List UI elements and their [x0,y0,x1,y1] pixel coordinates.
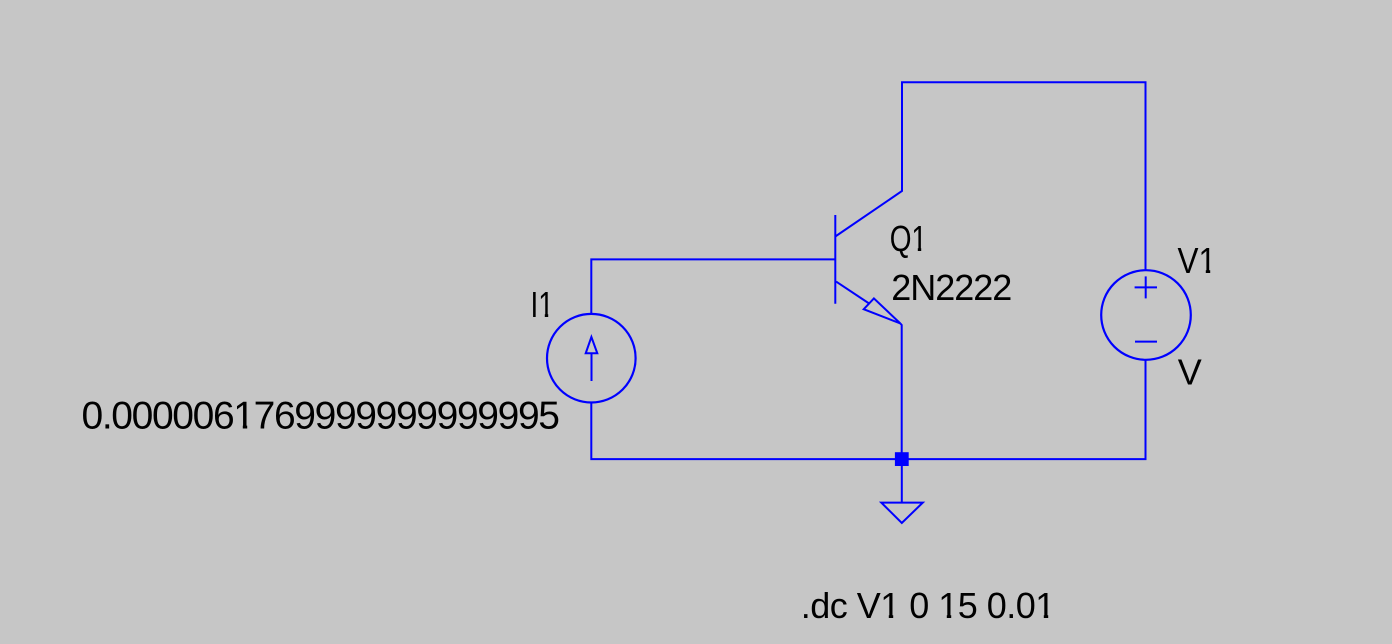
wire node to ground [901,459,903,503]
node junction square [895,452,909,466]
current source I1 arrow shaft [591,353,593,381]
V1 plus sign [1135,286,1157,288]
V1 minus sign [1135,341,1157,343]
voltage source V1 circle [1101,270,1191,360]
ground [881,503,923,523]
transistor Q1 emitter arrow [864,298,901,323]
digit-1 foot patches (match footless 1 of target font) [235,248,1215,619]
current source I1 arrow head [586,337,598,353]
svg-text:0.0000061769999999999995: 0.0000061769999999999995 [82,395,561,438]
svg-text:V1: V1 [1178,240,1217,281]
wire I1 bottom / bottom rail / V1 bottom [591,360,1145,460]
current source I1 circle [547,314,636,403]
wire collector/top rail to V1 [835,82,1145,270]
transistor Q1 base bar [834,215,836,304]
svg-text:2N2222: 2N2222 [891,267,1012,308]
transistor Q1 emitter [836,282,869,304]
wire emitter to node [900,324,901,460]
svg-text:V: V [1178,352,1202,393]
wire base to I1 top [591,259,835,314]
svg-text:Q1: Q1 [890,218,927,259]
svg-text:.dc V1 0 15 0.01: .dc V1 0 15 0.01 [801,585,1056,626]
svg-text:I1: I1 [531,284,554,325]
